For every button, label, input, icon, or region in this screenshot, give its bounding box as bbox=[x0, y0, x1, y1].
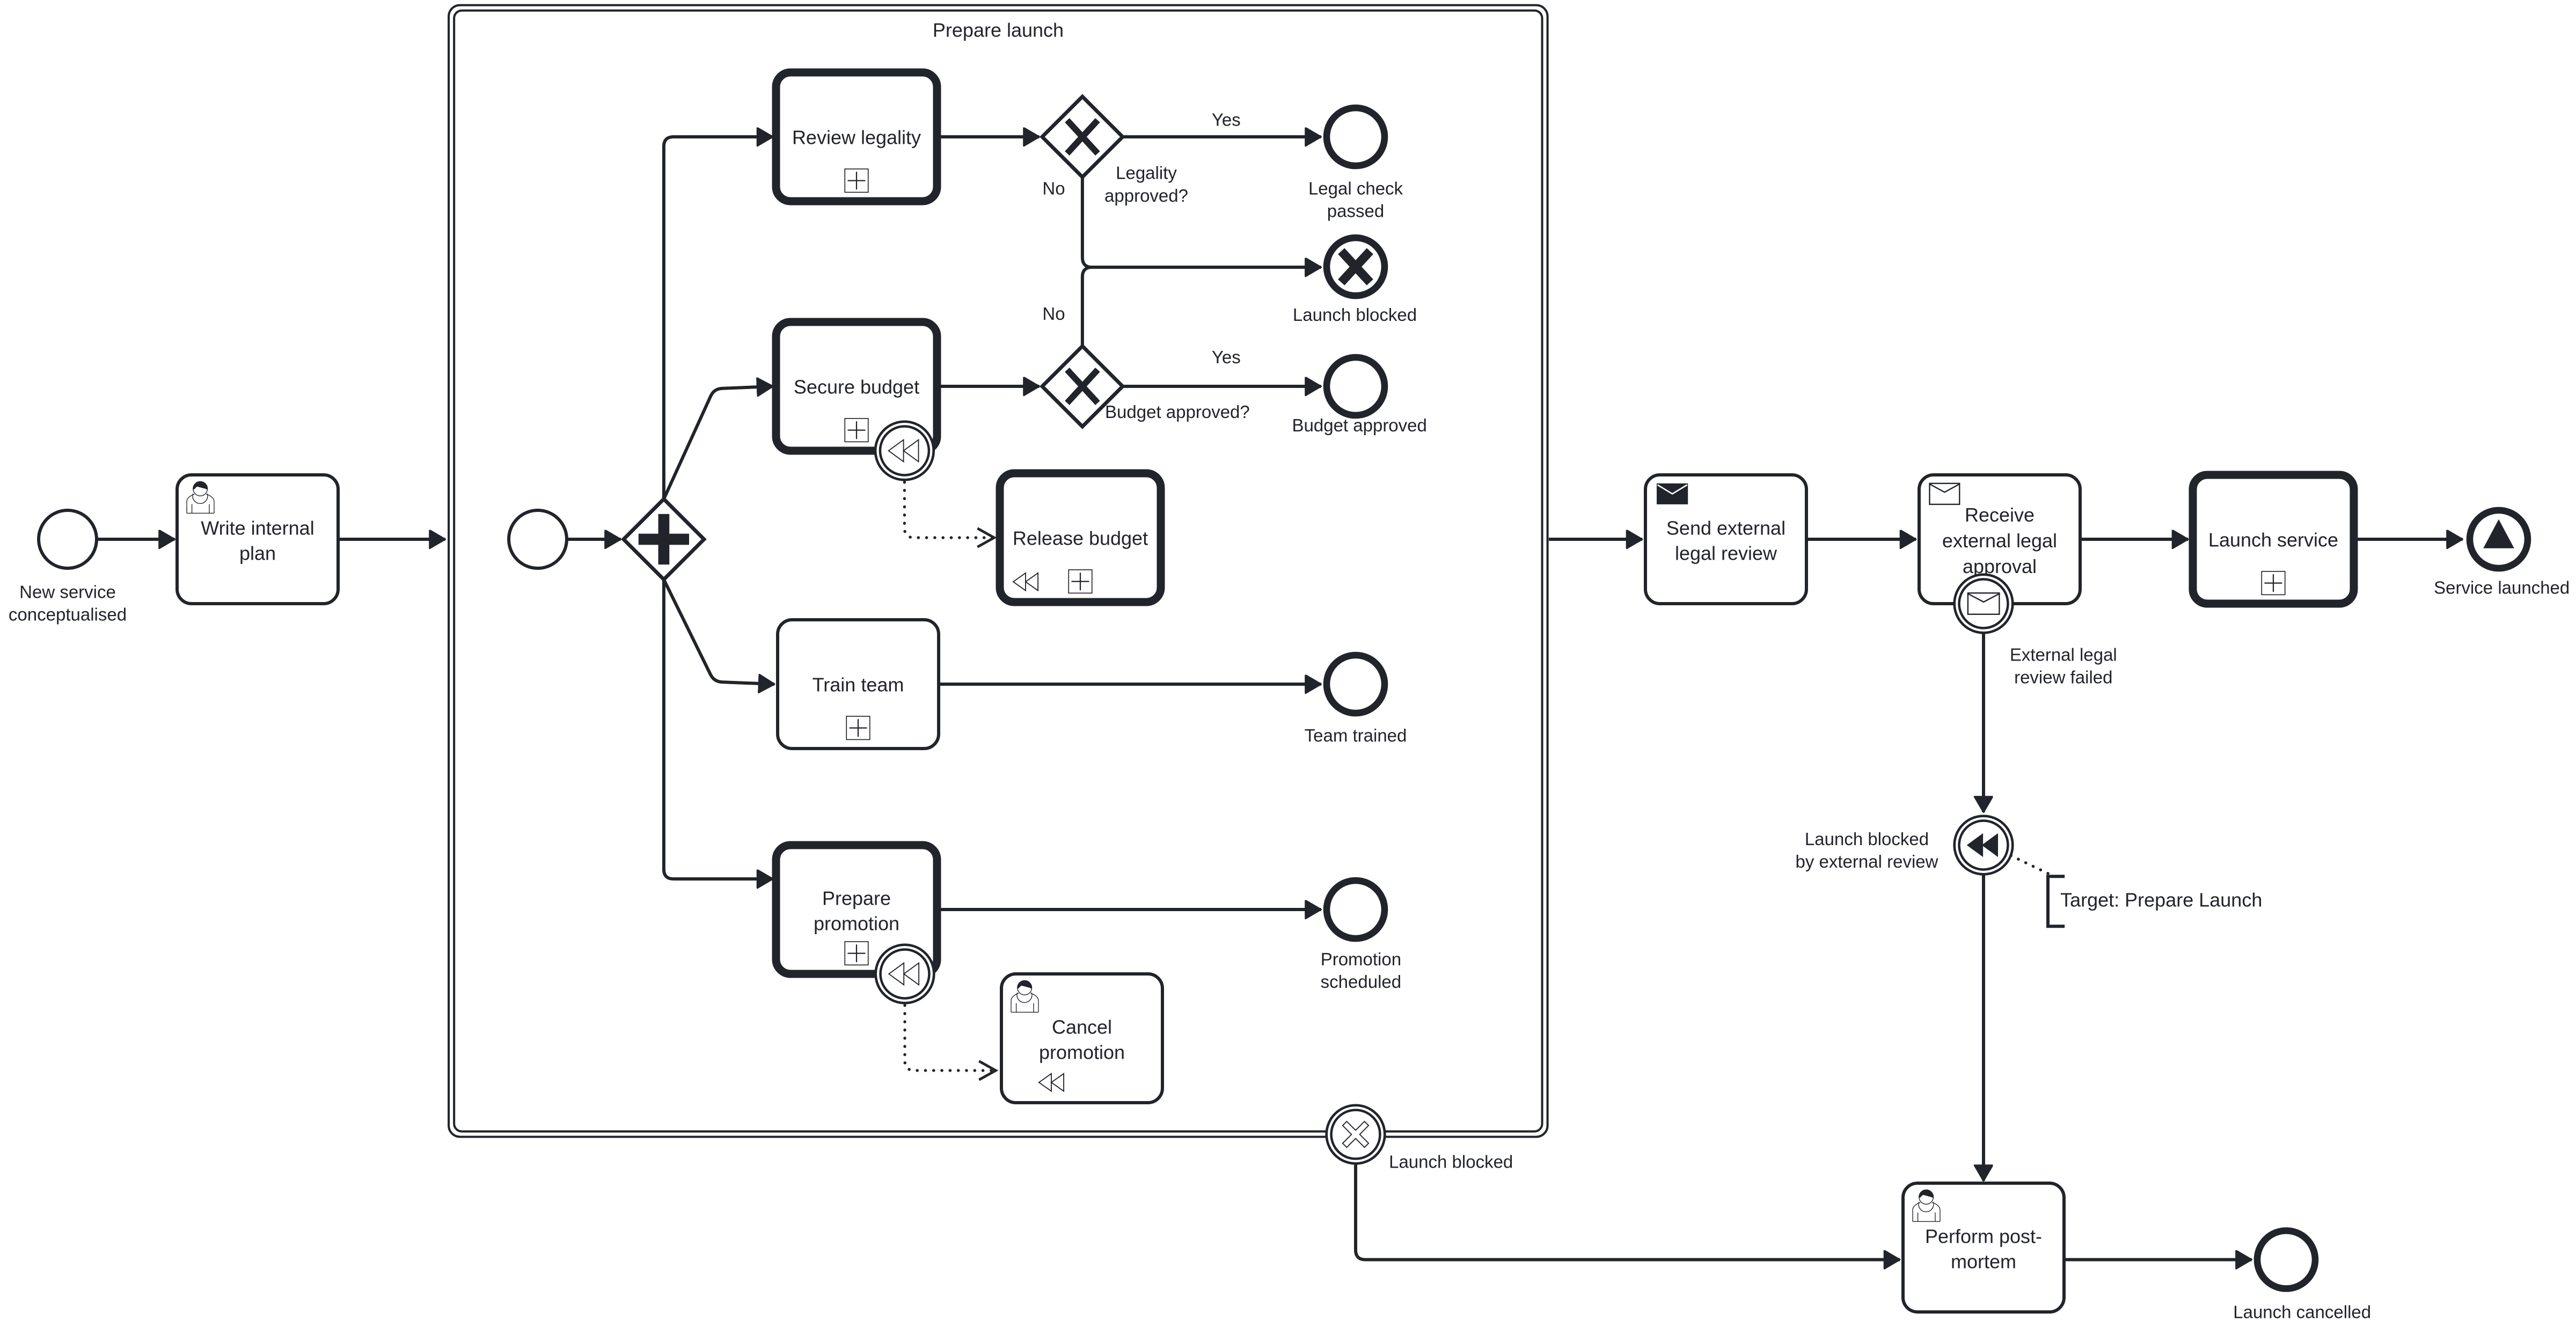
label No (legality) bbox=[1042, 179, 1065, 199]
svg-text:external legal: external legal bbox=[1942, 530, 2057, 552]
svg-text:legal review: legal review bbox=[1675, 542, 1777, 564]
svg-text:Launch blocked: Launch blocked bbox=[1805, 829, 1929, 849]
svg-text:New service: New service bbox=[19, 582, 116, 602]
compensation boundary event on Prepare promotion bbox=[876, 945, 934, 1003]
user task: Cancel promotion (compensation handler) bbox=[1001, 974, 1162, 1103]
compensation intermediate throw event: Launch blocked by external review bbox=[1796, 816, 2013, 875]
end event: Team trained bbox=[1305, 655, 1407, 745]
sequence flow No: legality gateway to Launch blocked end event bbox=[1082, 177, 1321, 267]
sequence flow: gateway to Review legality bbox=[664, 137, 773, 499]
end event: Launch cancelled bbox=[2233, 1231, 2371, 1320]
label No (budget) bbox=[1042, 304, 1065, 324]
sequence flow: compensation event to Perform post-mortem bbox=[1983, 874, 1984, 1181]
transaction subprocess: Prepare launch bbox=[449, 5, 1548, 1137]
call activity: Release budget (compensation handler) bbox=[1000, 473, 1161, 602]
svg-text:Legal check: Legal check bbox=[1308, 178, 1403, 198]
end event: Budget approved bbox=[1292, 357, 1427, 435]
collapsed subprocess: Train team bbox=[778, 620, 939, 749]
sequence flow: gateway to Train team bbox=[664, 580, 774, 684]
exclusive gateway: Legality approved? bbox=[1042, 97, 1188, 206]
svg-text:Receive: Receive bbox=[1965, 504, 2035, 526]
svg-text:Launch service: Launch service bbox=[2208, 529, 2338, 551]
svg-text:promotion: promotion bbox=[1039, 1042, 1125, 1064]
svg-text:Release budget: Release budget bbox=[1013, 527, 1148, 549]
svg-text:Launch blocked: Launch blocked bbox=[1389, 1152, 1513, 1172]
svg-text:Prepare: Prepare bbox=[822, 888, 891, 910]
svg-text:mortem: mortem bbox=[1951, 1251, 2016, 1273]
svg-text:Service launched: Service launched bbox=[2434, 578, 2570, 598]
svg-text:Promotion: Promotion bbox=[1321, 949, 1401, 969]
sequence flow Yes: gateway to Budget approved bbox=[1123, 386, 1321, 387]
svg-text:No: No bbox=[1042, 304, 1065, 324]
call activity: Secure budget bbox=[776, 322, 937, 451]
sequence flow: Prepare promotion to Promotion scheduled bbox=[937, 909, 1321, 910]
text annotation: Target: Prepare Launch bbox=[2048, 876, 2262, 926]
svg-text:approved?: approved? bbox=[1104, 186, 1188, 206]
svg-text:by external review: by external review bbox=[1796, 852, 1938, 871]
label Yes (legality) bbox=[1212, 110, 1241, 130]
sequence flow: Write internal plan to Prepare launch subprocess bbox=[338, 539, 445, 540]
call activity: Prepare promotion bbox=[776, 845, 937, 974]
sequence flow Yes: gateway to Legal check passed bbox=[1123, 136, 1321, 137]
svg-text:Train team: Train team bbox=[813, 674, 904, 696]
association to text annotation bbox=[2011, 856, 2054, 877]
sequence flow No: budget gateway to Launch blocked end event bbox=[1082, 267, 1321, 346]
svg-text:Launch blocked: Launch blocked bbox=[1293, 305, 1417, 325]
svg-text:Budget approved?: Budget approved? bbox=[1105, 402, 1250, 422]
sequence flow: Train team to Team trained bbox=[939, 684, 1321, 685]
svg-text:Review legality: Review legality bbox=[792, 127, 921, 149]
user task: Perform post-mortem bbox=[1903, 1183, 2064, 1312]
sequence flow: Secure budget to Budget approved gateway bbox=[937, 386, 1040, 387]
svg-text:Send external: Send external bbox=[1666, 517, 1785, 539]
sequence flow: start to Write internal plan bbox=[97, 539, 175, 540]
sequence flow: message boundary to Launch blocked by external review bbox=[1983, 633, 1984, 812]
compensation boundary event on Secure budget bbox=[875, 422, 934, 480]
receive task: Receive external legal approval bbox=[1919, 475, 2080, 604]
sequence flow: Review legality to Legality approved gateway bbox=[937, 136, 1040, 137]
svg-text:Yes: Yes bbox=[1212, 110, 1241, 130]
compensation association to Release budget bbox=[904, 482, 994, 538]
send task: Send external legal review bbox=[1645, 475, 1806, 604]
svg-text:review failed: review failed bbox=[2014, 668, 2112, 687]
sequence flow: Prepare launch to Send external legal review bbox=[1549, 539, 1642, 540]
sequence flow: inner start to parallel gateway bbox=[567, 539, 621, 540]
cancel boundary event on subprocess: Launch blocked bbox=[1327, 1105, 1513, 1172]
start event (inside subprocess) bbox=[509, 510, 567, 568]
svg-text:Legality: Legality bbox=[1116, 163, 1177, 183]
svg-text:Prepare launch: Prepare launch bbox=[933, 19, 1064, 41]
sequence flow: Receive approval to Launch service bbox=[2080, 539, 2188, 540]
label External legal review failed bbox=[2010, 645, 2117, 687]
label Yes (budget) bbox=[1212, 347, 1241, 367]
svg-text:Cancel: Cancel bbox=[1052, 1016, 1112, 1038]
svg-text:Budget approved: Budget approved bbox=[1292, 415, 1427, 435]
svg-text:Secure budget: Secure budget bbox=[794, 376, 919, 398]
svg-text:scheduled: scheduled bbox=[1321, 972, 1401, 992]
svg-text:External legal: External legal bbox=[2010, 645, 2117, 665]
parallel gateway (fork) bbox=[624, 499, 704, 580]
svg-text:approval: approval bbox=[1963, 555, 2037, 577]
signal end event: Service launched bbox=[2434, 510, 2570, 598]
svg-text:Write internal: Write internal bbox=[201, 517, 314, 539]
svg-text:Launch cancelled: Launch cancelled bbox=[2233, 1302, 2371, 1320]
svg-text:No: No bbox=[1042, 179, 1065, 199]
exclusive gateway: Budget approved? bbox=[1042, 346, 1250, 427]
svg-text:Team trained: Team trained bbox=[1305, 725, 1407, 745]
sequence flow: gateway to Prepare promotion bbox=[664, 580, 773, 879]
svg-text:Yes: Yes bbox=[1212, 347, 1241, 367]
end event: Promotion scheduled bbox=[1321, 881, 1401, 992]
sequence flow: gateway to Secure budget bbox=[664, 386, 773, 499]
compensation association to Cancel promotion bbox=[905, 1006, 996, 1071]
svg-text:plan: plan bbox=[239, 542, 276, 564]
svg-text:conceptualised: conceptualised bbox=[9, 605, 127, 625]
svg-text:passed: passed bbox=[1327, 201, 1384, 221]
sequence flow: Launch blocked boundary to Perform post-mortem bbox=[1356, 1164, 1900, 1260]
end event: Legal check passed bbox=[1308, 108, 1403, 221]
svg-text:promotion: promotion bbox=[814, 913, 899, 935]
sequence flow: Send to Receive external legal approval bbox=[1806, 539, 1916, 540]
svg-text:Target: Prepare Launch: Target: Prepare Launch bbox=[2060, 889, 2262, 911]
message boundary event on Receive external legal approval bbox=[1955, 575, 2013, 633]
user task: Write internal plan bbox=[177, 475, 338, 604]
call activity: Launch service bbox=[2193, 475, 2354, 604]
call activity: Review legality bbox=[776, 72, 937, 201]
sequence flow: Perform post-mortem to Launch cancelled bbox=[2064, 1259, 2252, 1260]
cancel end event: Launch blocked bbox=[1293, 238, 1417, 325]
svg-text:Perform post-: Perform post- bbox=[1925, 1226, 2042, 1248]
sequence flow: Launch service to Service launched bbox=[2354, 539, 2463, 540]
start event: New service conceptualised bbox=[9, 510, 127, 625]
